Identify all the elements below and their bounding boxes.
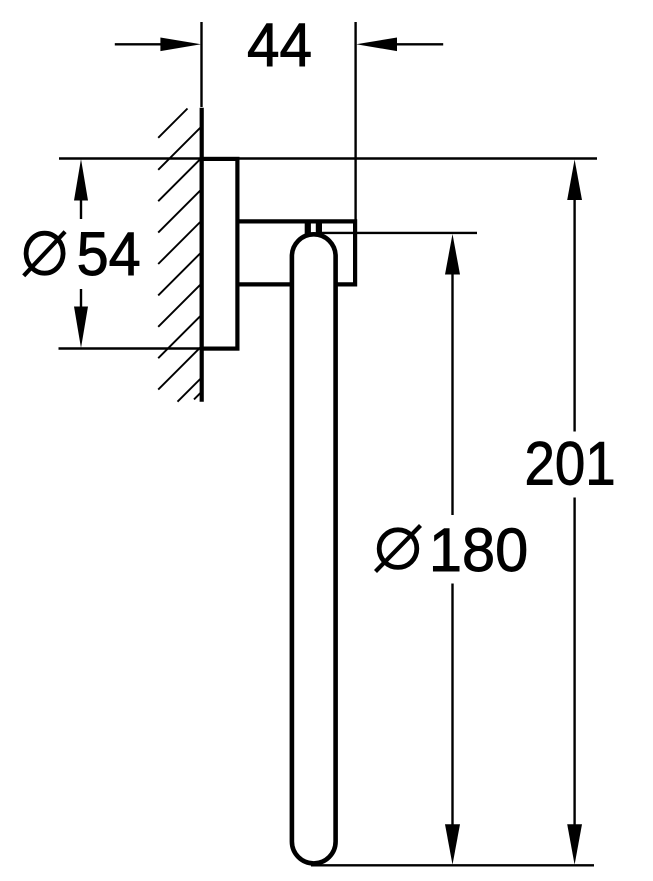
dim 180: diameter symbol — [379, 530, 417, 568]
dim 54: dimension line with inward arrows — [74, 159, 88, 201]
wall plate — [202, 159, 238, 349]
svg-text:44: 44 — [247, 11, 312, 79]
dim 201: text — [525, 431, 616, 498]
dim 180: dimension line — [445, 234, 460, 275]
dim 44: extension lines — [200, 22, 202, 107]
wall line — [200, 108, 204, 402]
towel ring (side view capsule) — [292, 234, 336, 863]
svg-text:201: 201 — [525, 431, 616, 498]
svg-text:180: 180 — [429, 515, 528, 584]
dim 44: left arrow — [115, 43, 161, 45]
arm — [237, 221, 355, 284]
top horizontal line (201 / diam54 upper extension) — [59, 157, 597, 159]
dim 180: text — [429, 515, 528, 584]
wall hatching — [158, 109, 202, 402]
dim 54: diameter symbol — [26, 233, 63, 273]
dim 44: text — [247, 11, 312, 79]
dim 201: dimension line — [567, 160, 582, 201]
dim 180: top extension line — [322, 232, 477, 234]
svg-text:54: 54 — [77, 219, 141, 288]
dim 54: text — [77, 219, 141, 288]
bottom horizontal line (201 / diam180 lower extension) — [311, 864, 594, 866]
ring clamp tabs — [305, 220, 311, 236]
bottom-left horizontal line (diam54 lower extension) — [59, 347, 237, 349]
dim 44: right arrow — [356, 38, 397, 52]
